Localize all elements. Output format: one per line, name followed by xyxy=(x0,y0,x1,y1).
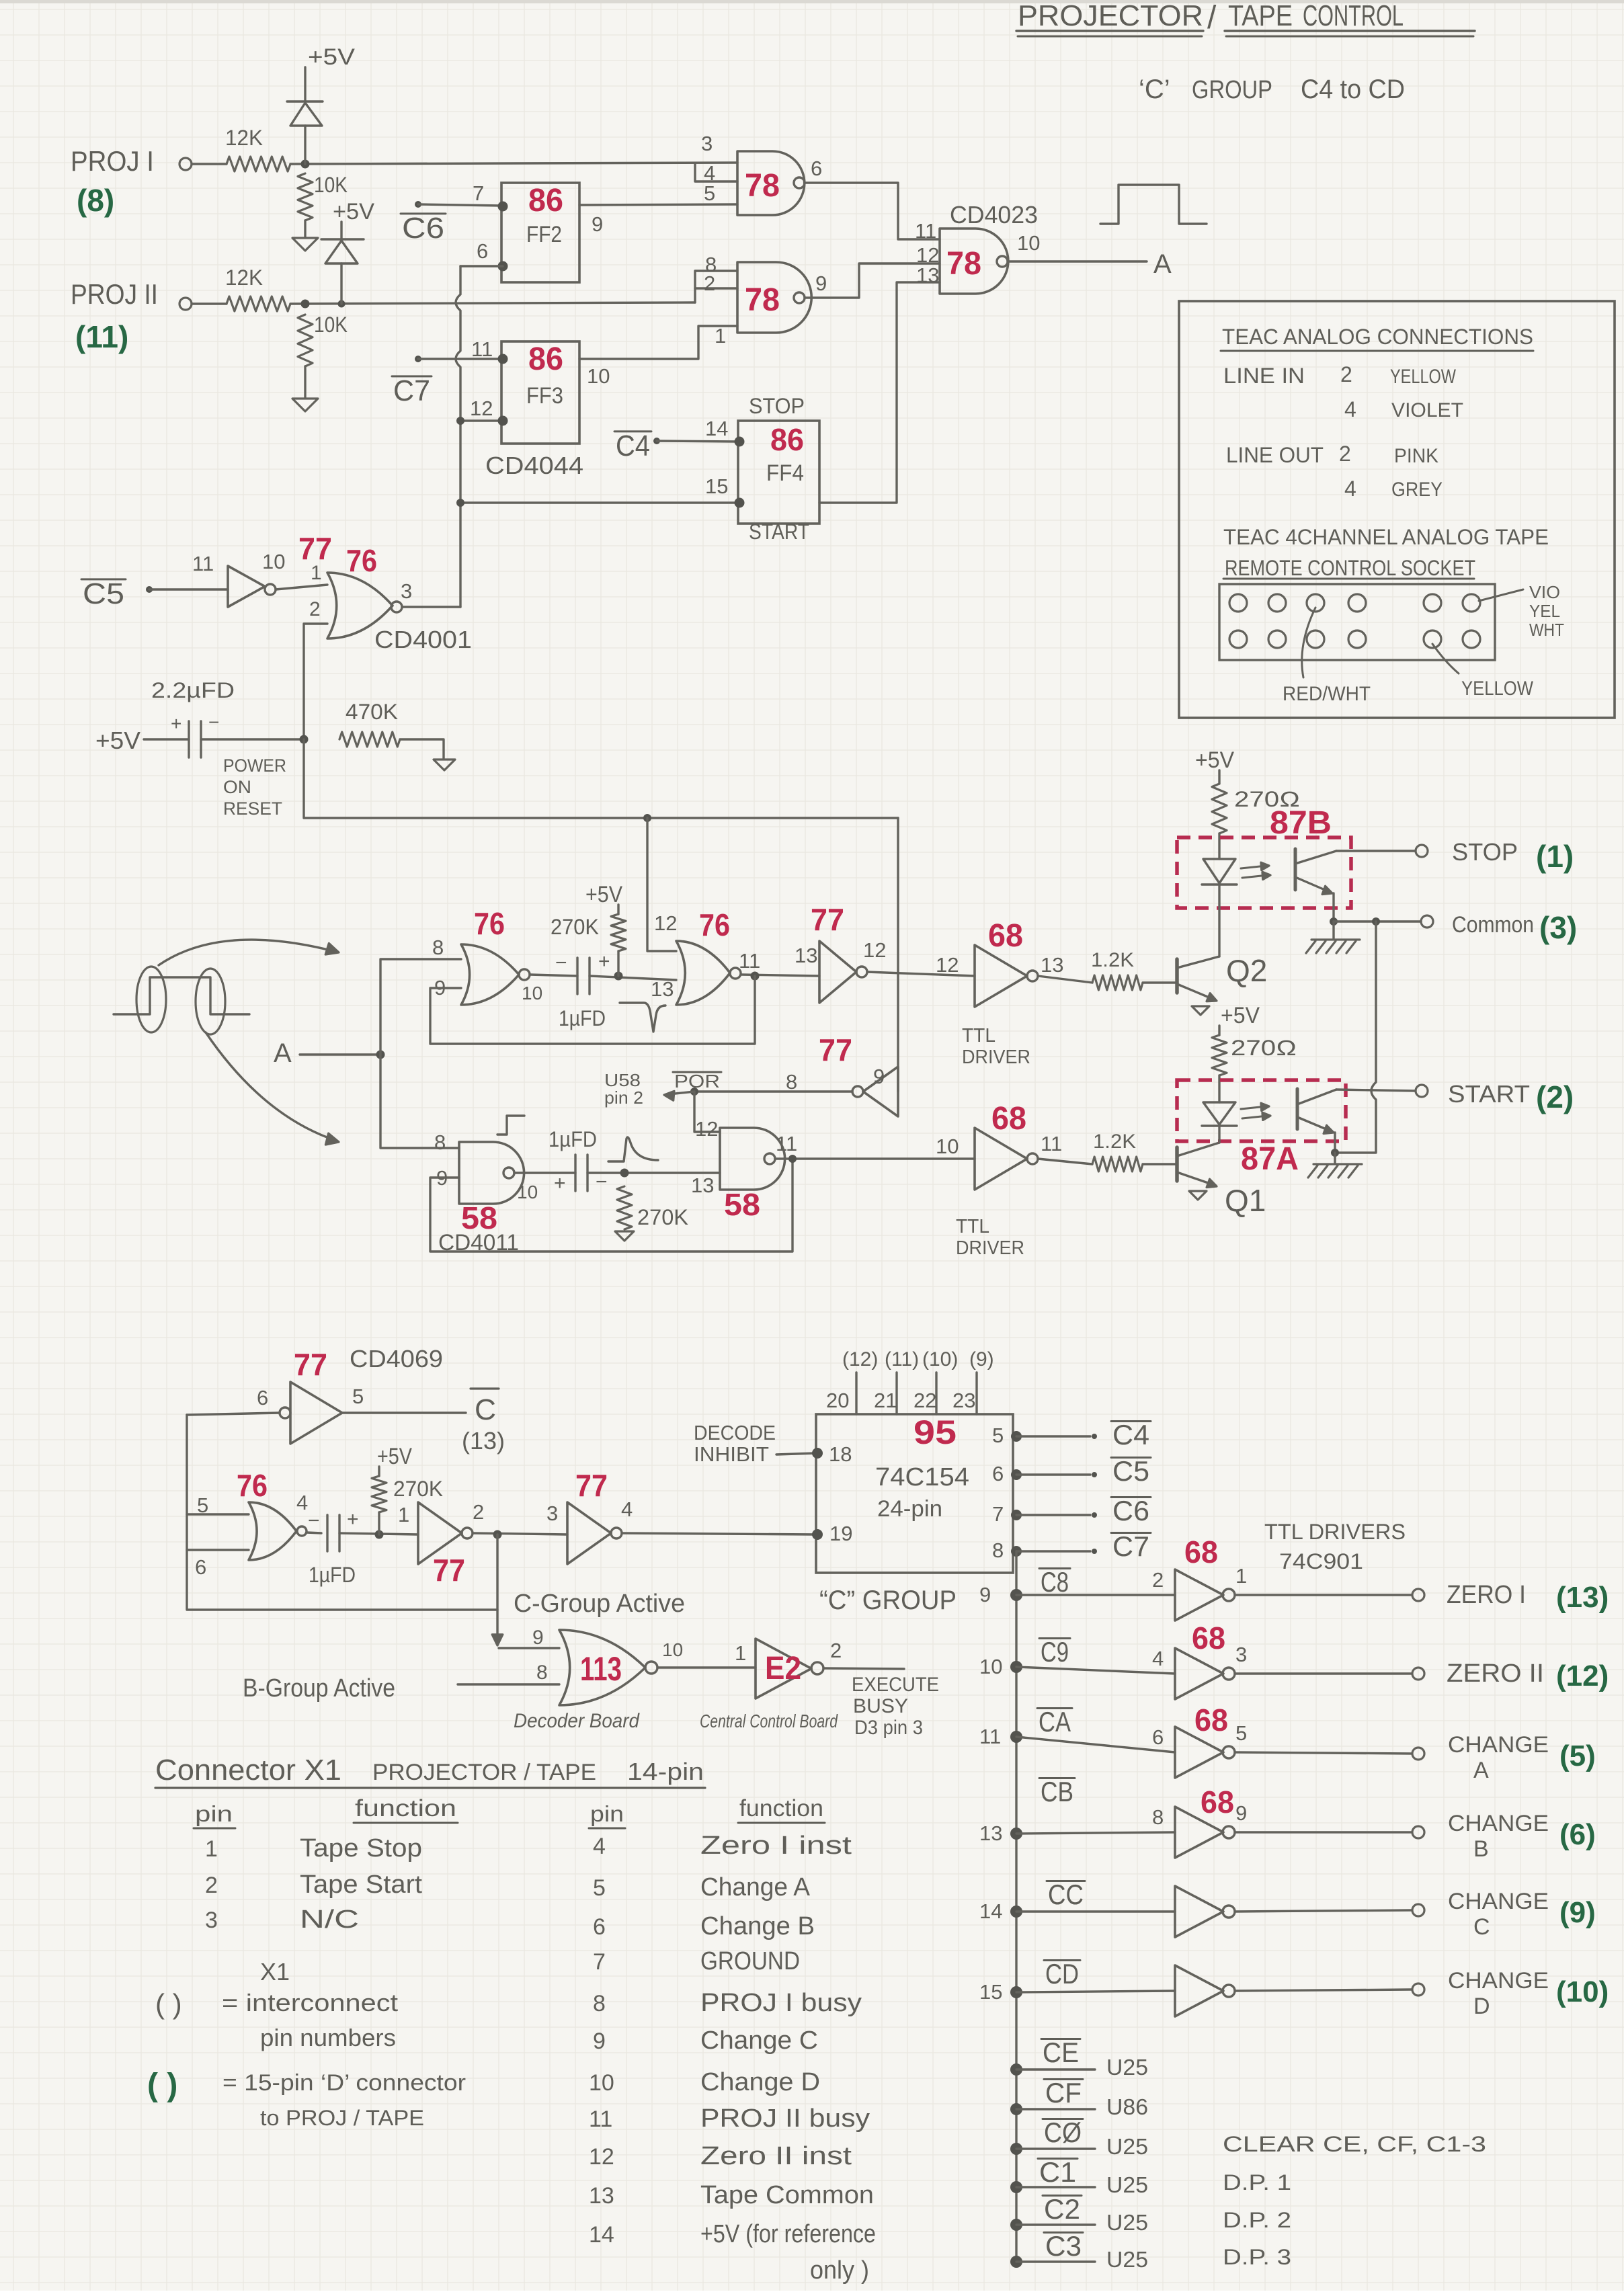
wire cap to inverter1 77 xyxy=(339,1530,418,1539)
pin 12 label (CD4023) xyxy=(916,243,939,267)
svg-text:PROJ II: PROJ II xyxy=(71,278,158,310)
svg-text:Change D: Change D xyxy=(700,2068,820,2096)
svg-text:2.2µFD: 2.2µFD xyxy=(151,678,235,702)
pin 18 label xyxy=(829,1442,852,1466)
svg-text:pin: pin xyxy=(590,1801,624,1826)
svg-text:18: 18 xyxy=(829,1442,852,1466)
svg-text:CD4023: CD4023 xyxy=(950,201,1038,229)
label Q2 xyxy=(1226,953,1267,988)
net C4 label xyxy=(1111,1419,1151,1450)
bus pin 11 dot xyxy=(979,1725,1022,1748)
svg-text:9: 9 xyxy=(592,212,603,236)
svg-text:20: 20 xyxy=(826,1389,849,1412)
label CHANGE|C output xyxy=(1448,1889,1549,1940)
pin 6 label (FF2) xyxy=(477,239,488,263)
svg-text:D.P. 2: D.P. 2 xyxy=(1223,2208,1291,2232)
pin 9 label (U58a) xyxy=(436,1166,448,1190)
svg-text:N/C: N/C xyxy=(300,1906,359,1934)
label U25 (C1) xyxy=(1106,2172,1148,2197)
wire NAND2 out to CD4023 pin 12 xyxy=(805,263,940,298)
svg-text:WHT: WHT xyxy=(1529,620,1564,640)
svg-text:4: 4 xyxy=(1344,477,1356,501)
TTL driver 68 (START) xyxy=(975,1128,1038,1190)
net C6 label xyxy=(401,212,446,245)
inverter U77b (POR buffer, points left) xyxy=(852,1067,898,1116)
svg-text:only ): only ) xyxy=(810,2256,869,2285)
svg-text:DRIVER: DRIVER xyxy=(962,1047,1030,1068)
pin 4 label xyxy=(704,161,715,185)
ground arrow (270K osc2) xyxy=(615,1231,634,1241)
IC number 68 red (driver STOP) xyxy=(988,918,1023,954)
svg-text:‘C’: ‘C’ xyxy=(1139,75,1170,104)
bus tap CE xyxy=(1010,2063,1095,2076)
svg-text:1: 1 xyxy=(398,1503,409,1526)
IC number 77 red (C5 inverter) xyxy=(298,531,332,566)
capacitor 1uFD (Cbar osc) xyxy=(308,1508,359,1587)
svg-text:ZERO I: ZERO I xyxy=(1447,1581,1526,1609)
svg-text:1: 1 xyxy=(205,1836,218,1862)
svg-text:pin numbers: pin numbers xyxy=(260,2024,396,2051)
IC number 76 red (OR2) xyxy=(699,907,730,942)
svg-text:3: 3 xyxy=(1235,1643,1247,1666)
wire CD to driver xyxy=(1016,1991,1175,1992)
svg-text:C7: C7 xyxy=(1112,1530,1149,1562)
svg-text:68: 68 xyxy=(1194,1703,1228,1737)
power +5V (POR) xyxy=(95,727,140,754)
pin 8 output C7 xyxy=(992,1539,1097,1562)
svg-text:1: 1 xyxy=(735,1641,746,1665)
phototransistor (87B) xyxy=(1295,849,1336,895)
bus pin 14 dot xyxy=(979,1899,1022,1923)
wire POR junction to NAND 58 pin 12 xyxy=(694,1092,720,1132)
svg-text:CE: CE xyxy=(1043,2037,1079,2068)
label Decoder Board xyxy=(514,1710,640,1732)
OR gate U76b (osc) xyxy=(676,941,741,1005)
svg-text:2: 2 xyxy=(309,598,321,620)
wire 87B collector to STOP xyxy=(1336,850,1416,852)
svg-text:1.2K: 1.2K xyxy=(1093,1131,1136,1153)
table row pin 6 Change B xyxy=(593,1912,815,1940)
svg-text:VIO: VIO xyxy=(1529,582,1560,602)
label LINE OUT 2 PINK xyxy=(1226,442,1438,467)
svg-text:POWER: POWER xyxy=(223,755,286,776)
svg-text:C6: C6 xyxy=(1112,1495,1149,1526)
svg-text:7: 7 xyxy=(473,181,484,205)
note D.P. 3 xyxy=(1223,2245,1291,2269)
pin 2 label (E2) xyxy=(830,1639,842,1662)
wire CD4069 input feedback vertical xyxy=(187,1413,497,1610)
pin 20 label xyxy=(826,1389,849,1412)
net CA label xyxy=(1037,1706,1072,1737)
node A (top) xyxy=(1153,249,1172,279)
capacitor 1uFD (osc1) xyxy=(555,950,610,1030)
inverter U77 (pin3-4) xyxy=(567,1502,622,1564)
ground (PROJ II divider) xyxy=(292,399,318,411)
wire driver CC to terminal xyxy=(1235,1910,1412,1912)
TTL driver 68 (STOP) xyxy=(975,945,1038,1007)
svg-text:C4: C4 xyxy=(1112,1419,1149,1450)
svg-text:CHANGE: CHANGE xyxy=(1448,1811,1549,1836)
pin 23 label xyxy=(952,1389,975,1412)
svg-text:Connector X1: Connector X1 xyxy=(155,1754,341,1787)
label VIO YEL WHT with pointer xyxy=(1479,582,1564,640)
svg-text:68: 68 xyxy=(1192,1621,1225,1655)
svg-text:21: 21 xyxy=(874,1389,897,1412)
svg-text:5: 5 xyxy=(593,1875,606,1901)
svg-text:+5V: +5V xyxy=(1195,747,1234,773)
wire FF2 pin 6 down vertical to FF3 pin12 / FF4 / CD4001 xyxy=(456,266,738,607)
svg-text:A: A xyxy=(274,1038,292,1068)
inverter U77 (pin1-2) xyxy=(418,1502,473,1564)
svg-text:3: 3 xyxy=(701,132,713,155)
terminal PROJ II xyxy=(179,298,192,310)
svg-text:(1): (1) xyxy=(1536,839,1574,874)
label RED/WHT with pointer xyxy=(1283,608,1371,705)
latch FF2 box xyxy=(498,183,580,282)
svg-text:1: 1 xyxy=(311,562,322,584)
pin 8 label (113) xyxy=(536,1662,548,1684)
optocoupler 87A dashed box xyxy=(1177,1080,1346,1141)
svg-text:13: 13 xyxy=(795,944,817,967)
wire U58b out to driver 68 xyxy=(775,1155,975,1163)
capacitor 1uFD (osc2) xyxy=(549,1127,608,1194)
label CHANGE|D output xyxy=(1448,1968,1549,2019)
terminal CHANGE|D xyxy=(1412,1983,1424,1996)
svg-text:1: 1 xyxy=(1235,1564,1247,1588)
IC number 68 red (CA) xyxy=(1194,1703,1228,1737)
wire POR line down to inverter2 input xyxy=(897,818,899,1092)
svg-text:470K: 470K xyxy=(346,700,398,724)
svg-text:12: 12 xyxy=(863,938,886,962)
latch FF3 box xyxy=(498,341,580,444)
pin 10 label (drv START) xyxy=(936,1135,959,1158)
node PROJ I label xyxy=(71,145,154,177)
table header function (left) xyxy=(354,1795,458,1823)
svg-text:STOP: STOP xyxy=(749,394,805,418)
interconnect pin (5) green xyxy=(1559,1739,1596,1772)
wire inverter to NOR pin 1 xyxy=(276,585,327,589)
wire OR1 out to cap xyxy=(530,975,577,976)
IC number 78 (U78a) red xyxy=(745,168,780,204)
svg-text:10: 10 xyxy=(662,1639,683,1660)
pin 3 label xyxy=(546,1502,558,1525)
label U25 (C&#216;) xyxy=(1106,2134,1148,2159)
wire POR long line xyxy=(304,739,898,822)
svg-text:LINE OUT: LINE OUT xyxy=(1226,443,1324,467)
svg-text:4: 4 xyxy=(621,1498,633,1521)
net C3 label xyxy=(1044,2230,1083,2262)
wire A to vertical xyxy=(300,1051,385,1059)
svg-text:6: 6 xyxy=(195,1555,206,1579)
svg-text:+5V: +5V xyxy=(377,1444,412,1469)
svg-text:68: 68 xyxy=(991,1101,1026,1137)
pin 4 label (OR3) xyxy=(296,1491,308,1514)
svg-text:4: 4 xyxy=(593,1834,606,1859)
pin 10 label (CD4023) xyxy=(1017,231,1040,255)
label TEAC ANALOG CONNECTIONS xyxy=(1221,325,1533,351)
wire POR junction down to OR2 pin 12 xyxy=(647,818,676,951)
svg-text:CB: CB xyxy=(1041,1776,1073,1807)
IC number 95 red xyxy=(913,1414,957,1451)
net C1 label xyxy=(1038,2156,1078,2188)
IC number 78 (U78b) red xyxy=(745,282,780,318)
svg-text:FF4: FF4 xyxy=(766,460,804,486)
svg-text:pin: pin xyxy=(195,1801,233,1826)
label POWER ON RESET xyxy=(223,755,286,819)
label 74C154 xyxy=(875,1463,969,1491)
label C GROUP xyxy=(819,1586,957,1615)
net CC label xyxy=(1047,1879,1085,1910)
svg-text:A: A xyxy=(1473,1758,1489,1783)
pin 4 label (drv C9) xyxy=(1152,1647,1164,1670)
power +5V (87A) xyxy=(1219,1003,1260,1035)
bus tap C2 xyxy=(1010,2219,1095,2231)
wire inv2 out to 74C154 pin19 xyxy=(622,1533,816,1534)
wire PROJ I line xyxy=(290,160,737,169)
pin 14 label (FF4) xyxy=(705,417,728,440)
svg-text:YEL: YEL xyxy=(1529,601,1560,621)
pin 6 label (CD4069) xyxy=(257,1386,268,1409)
wire driver CD to terminal xyxy=(1235,1990,1412,1991)
pin 7 label (FF2) xyxy=(473,181,484,205)
curved arrow upper (to OR gate) xyxy=(159,940,339,965)
svg-text:GREY: GREY xyxy=(1391,479,1443,501)
OR gate 76 (Cbar osc) xyxy=(249,1502,307,1560)
svg-text:( ): ( ) xyxy=(147,2067,177,2103)
svg-text:START: START xyxy=(749,520,809,544)
table row pin 13 Tape Common xyxy=(589,2181,874,2209)
IC name CD4044 xyxy=(485,452,583,479)
svg-text:TTL DRIVERS: TTL DRIVERS xyxy=(1264,1520,1406,1544)
svg-text:9: 9 xyxy=(1235,1801,1247,1825)
wire A vert to NAND1-58 pin8 (step symbol) xyxy=(497,1116,524,1135)
svg-text:270K: 270K xyxy=(637,1205,688,1229)
optocoupler 87B dashed box xyxy=(1177,837,1351,908)
svg-text:12: 12 xyxy=(470,397,493,420)
svg-text:PROJECTOR / TAPE: PROJECTOR / TAPE xyxy=(372,1760,596,1785)
net CD label xyxy=(1044,1958,1080,1990)
power +5V (87B) xyxy=(1195,747,1234,784)
pin 10 label (U58a) xyxy=(517,1182,538,1202)
svg-text:+5V: +5V xyxy=(1221,1003,1260,1028)
label EXECUTE BUSY D3 pin3 xyxy=(852,1674,939,1739)
svg-text:Q2: Q2 xyxy=(1226,953,1267,988)
svg-text:2: 2 xyxy=(704,272,715,295)
inverter U77a (osc) xyxy=(819,941,867,1003)
wire CB to driver xyxy=(1016,1832,1175,1834)
LED (87A) xyxy=(1202,1102,1270,1143)
svg-text:11: 11 xyxy=(471,337,493,361)
NOR gate CD4001 xyxy=(327,573,402,639)
svg-text:CONTROL: CONTROL xyxy=(1303,0,1404,32)
svg-text:(12): (12) xyxy=(842,1348,878,1370)
TEAC info box xyxy=(1179,301,1615,718)
decoder 74C154 box xyxy=(812,1414,1013,1573)
pin 8 label (drv CB) xyxy=(1152,1805,1164,1829)
NAND gate CD4023 xyxy=(940,229,1008,294)
pin 15 label (FF4) xyxy=(705,475,728,498)
wire cap to OR2 pin13 xyxy=(590,972,676,981)
table row pin 3 N/C xyxy=(205,1906,359,1934)
svg-text:13: 13 xyxy=(916,263,939,287)
svg-text:19: 19 xyxy=(829,1522,852,1545)
table header function (right) xyxy=(738,1795,825,1823)
svg-text:EXECUTE: EXECUTE xyxy=(852,1674,939,1696)
pin 13 label (drv STOP) xyxy=(1041,953,1063,977)
bus vertical line xyxy=(1015,1551,1017,2262)
net C8 label xyxy=(1039,1566,1070,1598)
svg-text:C9: C9 xyxy=(1041,1636,1069,1668)
resistor 1.2K (Q2) xyxy=(1091,949,1143,990)
svg-text:5: 5 xyxy=(1235,1721,1247,1745)
terminal ZERO II xyxy=(1412,1668,1424,1680)
svg-text:10: 10 xyxy=(589,2070,614,2096)
wire C4 to FF4 pin 14 xyxy=(653,438,738,444)
svg-text:4: 4 xyxy=(296,1491,308,1514)
pin 5 label (OR3) xyxy=(197,1493,208,1517)
interconnect labels (12)(11)(10)(9) xyxy=(842,1348,994,1370)
svg-text:3: 3 xyxy=(205,1908,218,1933)
wire C5 to inverter xyxy=(146,586,228,593)
bus pin 9 dot xyxy=(979,1583,1022,1606)
svg-text:270Ω: 270Ω xyxy=(1231,1036,1297,1060)
svg-text:1.2K: 1.2K xyxy=(1091,949,1134,971)
pin 9 label (113) xyxy=(532,1627,544,1649)
interconnect pin (10) green xyxy=(1556,1975,1609,2008)
pin 13 label (CD4023) xyxy=(916,263,939,287)
svg-text:68: 68 xyxy=(988,918,1023,954)
wire cap to NAND2-58 pin13 xyxy=(587,1169,720,1178)
svg-text:77: 77 xyxy=(294,1347,327,1382)
svg-text:(2): (2) xyxy=(1536,1079,1574,1114)
socket holes xyxy=(1229,594,1480,648)
wire C-Group Active down arrow to 113 pin9 xyxy=(492,1534,559,1648)
svg-text:X1: X1 xyxy=(260,1958,290,1985)
svg-text:13: 13 xyxy=(1041,953,1063,977)
svg-text:CHANGE: CHANGE xyxy=(1448,1968,1549,1994)
pin 19 label xyxy=(829,1522,852,1545)
svg-text:9: 9 xyxy=(979,1583,991,1606)
svg-text:= interconnect: = interconnect xyxy=(222,1989,398,2016)
svg-text:8: 8 xyxy=(992,1539,1004,1562)
wire common vertical to START row xyxy=(1335,921,1376,1153)
IC name CD4001 xyxy=(374,626,472,653)
svg-text:2: 2 xyxy=(1152,1568,1164,1592)
svg-text:Tape Common: Tape Common xyxy=(700,2181,874,2209)
svg-text:6: 6 xyxy=(593,1914,606,1940)
svg-text:C4: C4 xyxy=(616,429,650,462)
svg-text:86: 86 xyxy=(528,183,563,218)
curved arrow lower (to NAND gate) xyxy=(206,1032,339,1145)
svg-text:12K: 12K xyxy=(225,265,263,290)
pin 2 label xyxy=(704,272,715,295)
interconnect pin (2) green xyxy=(1536,1079,1574,1114)
svg-text:C7: C7 xyxy=(393,374,430,407)
pin 8 label (OR1) xyxy=(432,936,444,959)
terminal CHANGE|B xyxy=(1412,1826,1424,1838)
inverter CD4069 (Cbar) xyxy=(280,1382,342,1444)
wire driver C8 to terminal xyxy=(1235,1594,1412,1596)
svg-text:U25: U25 xyxy=(1106,2247,1148,2272)
svg-text:(11): (11) xyxy=(75,319,128,354)
svg-text:TTL: TTL xyxy=(962,1025,996,1047)
label CHANGE|B output xyxy=(1448,1811,1549,1862)
svg-text:86: 86 xyxy=(528,341,563,377)
svg-text:12: 12 xyxy=(936,953,959,977)
wire U58a out to cap xyxy=(514,1172,575,1174)
label U86 (CF) xyxy=(1106,2094,1148,2119)
interconnect pin (11) green xyxy=(75,319,128,354)
svg-text:15: 15 xyxy=(979,1980,1002,2004)
wire driver C9 to terminal xyxy=(1235,1672,1412,1674)
table row pin 1 Tape Stop xyxy=(205,1834,422,1862)
svg-text:(9): (9) xyxy=(1559,1896,1596,1929)
pin 2 label (drv C8) xyxy=(1152,1568,1164,1592)
resistor 270ohm (87A) xyxy=(1212,1035,1297,1102)
svg-text:8: 8 xyxy=(786,1070,797,1094)
IC number 87B red xyxy=(1270,805,1332,841)
pin 1 label (CD4001) xyxy=(311,562,322,584)
title PROJECTOR / TAPE CONTROL xyxy=(1016,0,1475,36)
table row pin 2 Tape Start xyxy=(205,1871,422,1899)
svg-text:5: 5 xyxy=(704,181,715,205)
svg-text:B: B xyxy=(1473,1836,1489,1862)
svg-text:+: + xyxy=(171,713,181,734)
svg-text:INHIBIT: INHIBIT xyxy=(694,1442,769,1466)
svg-text:C5: C5 xyxy=(1112,1455,1149,1487)
wire driver CB to terminal xyxy=(1235,1831,1412,1833)
interconnect pin (3) green xyxy=(1539,910,1577,945)
svg-text:+: + xyxy=(598,950,610,973)
svg-text:−: − xyxy=(308,1510,320,1532)
svg-text:13: 13 xyxy=(979,1821,1002,1845)
pin 3 label (CD4001) xyxy=(401,579,412,603)
svg-text:( ): ( ) xyxy=(155,1988,182,2020)
svg-text:function: function xyxy=(739,1795,823,1821)
remote socket rectangle xyxy=(1219,584,1495,660)
svg-text:(10): (10) xyxy=(1556,1975,1609,2008)
svg-text:8: 8 xyxy=(593,1991,606,2016)
svg-text:Common: Common xyxy=(1452,912,1534,938)
pin 10 label (FF3) xyxy=(587,364,610,388)
label Common output xyxy=(1452,912,1534,938)
svg-text:−: − xyxy=(555,952,567,974)
pin 8 label (U58a) xyxy=(434,1131,446,1154)
net CF label xyxy=(1044,2077,1083,2108)
pin 11 label (U58b) xyxy=(776,1132,797,1155)
transistor Q1 xyxy=(1177,1143,1219,1188)
pin 9 label (OR1) xyxy=(434,976,446,999)
spike waveform symbol (osc1) xyxy=(620,1003,665,1032)
svg-text:D3 pin 3: D3 pin 3 xyxy=(854,1717,923,1739)
terminal PROJ I xyxy=(179,158,192,170)
svg-text:Change A: Change A xyxy=(700,1873,811,1901)
svg-text:9: 9 xyxy=(815,272,827,295)
pin 1 label (drv C8) xyxy=(1235,1564,1247,1588)
pin 22 label xyxy=(913,1389,936,1412)
pin 8 label xyxy=(705,253,717,276)
svg-text:E2: E2 xyxy=(765,1651,801,1686)
svg-text:4: 4 xyxy=(1344,397,1356,421)
table row pin 8 PROJ I busy xyxy=(593,1989,862,2017)
svg-text:Decoder Board: Decoder Board xyxy=(514,1710,640,1732)
pin 12 label (FF3) xyxy=(470,397,493,420)
svg-text:12: 12 xyxy=(654,911,677,935)
svg-text:13: 13 xyxy=(651,977,674,1001)
svg-text:VIOLET: VIOLET xyxy=(1391,399,1463,421)
svg-text:C8: C8 xyxy=(1041,1566,1069,1598)
pin 9 label (POR inv) xyxy=(873,1065,885,1088)
